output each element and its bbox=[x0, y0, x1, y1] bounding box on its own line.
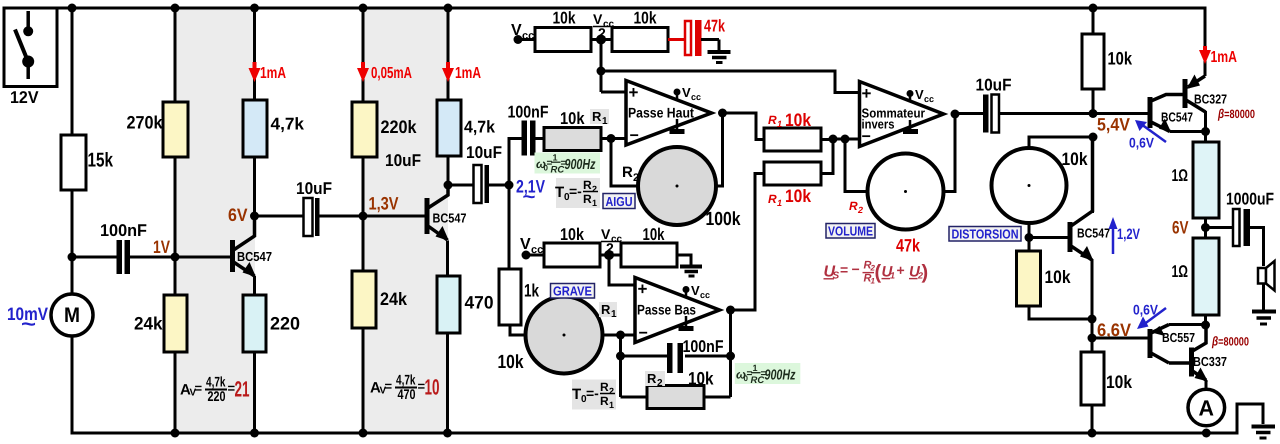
formula Av stage1 bbox=[180, 374, 250, 405]
svg-text:β=80000: β=80000 bbox=[1211, 334, 1249, 349]
capacitor 100nF input bbox=[72, 221, 175, 274]
svg-text:1: 1 bbox=[753, 363, 758, 373]
svg-text:V: V bbox=[682, 85, 691, 100]
svg-text:~: ~ bbox=[523, 187, 536, 208]
svg-text:1mA: 1mA bbox=[260, 65, 286, 82]
svg-text:R: R bbox=[592, 109, 602, 124]
node sommateur output bbox=[951, 110, 960, 119]
transistor Q1 BC547 bbox=[175, 216, 272, 295]
svg-text:1: 1 bbox=[602, 116, 608, 127]
svg-text:10k: 10k bbox=[560, 225, 584, 244]
svg-text:=: = bbox=[195, 381, 203, 396]
svg-text:+: + bbox=[638, 280, 648, 299]
svg-text:=: = bbox=[840, 262, 848, 278]
svg-text:+: + bbox=[629, 83, 639, 102]
resistor 10k bias2b bbox=[621, 243, 677, 267]
resistor 220k bbox=[352, 102, 377, 157]
resistor R1b 10k summing bbox=[764, 162, 821, 185]
svg-text:cc: cc bbox=[924, 94, 934, 104]
node output top bbox=[1201, 127, 1210, 136]
arrow 0,6V top blue bbox=[1129, 120, 1166, 151]
svg-text:S: S bbox=[833, 271, 840, 282]
svg-text:1: 1 bbox=[609, 400, 614, 410]
svg-text:1: 1 bbox=[611, 309, 617, 320]
node 6V output bbox=[1201, 223, 1210, 232]
svg-text:100nF: 100nF bbox=[508, 103, 549, 122]
svg-text:270k: 270k bbox=[127, 113, 164, 133]
node collector stage1 bbox=[250, 212, 259, 221]
resistor 10k top right bbox=[1082, 4, 1133, 114]
op-amp U1 Passe Haut bbox=[626, 81, 712, 146]
node Vcc/2 row1 bbox=[591, 11, 615, 45]
svg-text:6V: 6V bbox=[1172, 218, 1189, 238]
svg-text:1: 1 bbox=[777, 198, 782, 208]
shaded band stage2 bbox=[363, 7, 448, 433]
svg-text:GRAVE: GRAVE bbox=[553, 284, 592, 299]
svg-text:1Ω: 1Ω bbox=[1172, 166, 1189, 185]
resistor 470 emitter stage2 bbox=[437, 276, 460, 333]
transistor Q6 BC557 bbox=[1092, 325, 1206, 364]
wire 2,1V node up to 100nF bbox=[509, 139, 522, 186]
Vcc terminal row1 bbox=[511, 22, 535, 44]
svg-text:10k: 10k bbox=[1062, 149, 1089, 169]
wire pot to PB minus bbox=[603, 334, 636, 337]
resistor 220 emitter stage1 bbox=[243, 295, 266, 352]
arrow 0,6V bottom blue bbox=[1133, 302, 1166, 330]
wire 5,4V node down bbox=[1091, 137, 1094, 213]
node mic/cap junction bbox=[68, 253, 77, 262]
current arrow 1mA stage2 bbox=[442, 62, 481, 82]
svg-text:10k: 10k bbox=[553, 9, 576, 28]
svg-text:10uF: 10uF bbox=[385, 151, 421, 170]
label R1 PB bbox=[599, 302, 617, 320]
svg-text:invers: invers bbox=[862, 117, 895, 132]
wire Vcc/2 row2 to PB+ bbox=[609, 255, 635, 285]
svg-text:1: 1 bbox=[592, 198, 597, 208]
resistor 1ohm top bbox=[1172, 132, 1220, 239]
wire 4,7k/470 column stage2 bbox=[446, 8, 450, 433]
node 6,6V bbox=[1088, 315, 1097, 324]
svg-text:BC547: BC547 bbox=[237, 249, 272, 264]
op-amp U2 Passe Bas bbox=[635, 278, 720, 343]
svg-text:1000uF: 1000uF bbox=[1226, 190, 1274, 209]
arrow 1,2V blue bbox=[1109, 217, 1141, 254]
wire PH out to R1a bbox=[723, 113, 765, 140]
formula T0 PB bbox=[572, 380, 616, 411]
svg-text:100k: 100k bbox=[706, 209, 741, 230]
svg-text:2: 2 bbox=[592, 184, 597, 194]
resistor R2 10k PB grey bbox=[621, 369, 731, 409]
capacitor 10uF coupling stage2-filters bbox=[448, 143, 509, 203]
svg-text:R: R bbox=[600, 394, 609, 408]
wire Vcc/2 to PH+ and Sommateur+ bbox=[601, 40, 859, 93]
wire 1k to GRAVE pot bbox=[510, 325, 526, 335]
svg-text:10: 10 bbox=[425, 375, 440, 400]
speaker bbox=[1258, 261, 1275, 311]
svg-text:10k: 10k bbox=[498, 352, 524, 373]
svg-text:24k: 24k bbox=[134, 314, 163, 334]
svg-text:900Hz: 900Hz bbox=[765, 368, 797, 384]
label AIGU bbox=[603, 194, 635, 210]
wire top supply bus bbox=[57, 8, 1205, 76]
potentiometer GRAVE 10k bbox=[526, 297, 603, 374]
svg-text:BC547: BC547 bbox=[433, 211, 467, 226]
svg-text:5,4V: 5,4V bbox=[1097, 115, 1130, 135]
shaded band stage1 bbox=[175, 7, 255, 433]
wire to VOLUME pot left bbox=[845, 139, 868, 192]
current arrow 1mA stage1 bbox=[249, 62, 287, 82]
svg-text:2: 2 bbox=[657, 378, 663, 389]
wire 4,7k/220 column bbox=[253, 8, 256, 433]
svg-text:10uF: 10uF bbox=[976, 76, 1012, 95]
formula w0 PB green bbox=[735, 363, 801, 386]
svg-text:10k: 10k bbox=[1108, 49, 1133, 69]
microphone M bbox=[51, 294, 93, 336]
svg-text:A: A bbox=[1199, 396, 1215, 421]
svg-text:R: R bbox=[583, 192, 592, 206]
svg-text:4,7k: 4,7k bbox=[464, 118, 496, 137]
svg-text:Passe Haut: Passe Haut bbox=[628, 105, 694, 121]
wire 270k/24k column bbox=[174, 8, 177, 433]
resistor 15k bbox=[61, 135, 86, 190]
svg-text:47k: 47k bbox=[704, 17, 725, 36]
svg-text:R: R bbox=[849, 199, 858, 213]
svg-text:DISTORSION: DISTORSION bbox=[952, 227, 1019, 242]
svg-text:15k: 15k bbox=[88, 150, 114, 172]
current arrow 0,05mA bbox=[357, 62, 412, 82]
resistor 24k stage1 bbox=[164, 295, 187, 352]
svg-text:10k: 10k bbox=[785, 186, 812, 206]
node collector stage2 bbox=[444, 181, 453, 190]
svg-text:1: 1 bbox=[553, 153, 558, 163]
svg-text:V: V bbox=[915, 87, 924, 102]
svg-text:1,2V: 1,2V bbox=[1117, 226, 1140, 243]
svg-text:2: 2 bbox=[609, 386, 614, 396]
svg-text:+: + bbox=[897, 262, 905, 278]
svg-text:cc: cc bbox=[700, 290, 710, 300]
svg-text:900Hz: 900Hz bbox=[565, 157, 597, 173]
svg-text:0,6V: 0,6V bbox=[1129, 135, 1155, 151]
node base stage1 bbox=[171, 253, 180, 262]
svg-text:+: + bbox=[862, 84, 872, 103]
wire 2,1V down to 1k bbox=[508, 185, 511, 269]
ground bottom right bbox=[1252, 427, 1276, 439]
resistor 24k stage2 bbox=[352, 271, 376, 328]
svg-text:1V: 1V bbox=[153, 237, 170, 257]
potentiometer VOLUME 47k bbox=[868, 154, 944, 230]
node Vcc/2 row2 bbox=[600, 226, 623, 260]
svg-text:−: − bbox=[852, 261, 860, 277]
ground row2 bbox=[680, 267, 702, 277]
svg-text:=-: =- bbox=[569, 183, 582, 199]
label GRAVE bbox=[551, 284, 595, 299]
svg-text:R: R bbox=[768, 192, 777, 206]
wire PH feedback to pot bbox=[611, 113, 723, 186]
formula T0 PH bbox=[555, 178, 600, 208]
resistor 4,7k stage1 bbox=[243, 100, 267, 157]
wire PB out to R1b bbox=[731, 174, 765, 311]
svg-text:1: 1 bbox=[890, 271, 895, 281]
svg-text:10k: 10k bbox=[688, 369, 714, 389]
resistor 270k bbox=[163, 102, 188, 157]
svg-text:(: ( bbox=[875, 262, 882, 284]
transistor Q4 BC547 sziklai top bbox=[1093, 95, 1206, 133]
wire 220k/24k column stage2 bbox=[362, 8, 365, 433]
svg-text:cc: cc bbox=[691, 92, 701, 102]
capacitor 100nF PH input bbox=[508, 103, 549, 156]
node 5,4V bbox=[1089, 109, 1098, 118]
svg-text:47k: 47k bbox=[896, 236, 921, 256]
svg-text:1mA: 1mA bbox=[1211, 49, 1238, 66]
resistor 10k bias1a bbox=[535, 28, 591, 52]
svg-text:BC327: BC327 bbox=[1194, 92, 1227, 107]
Vcc terminal row2 bbox=[520, 236, 544, 260]
svg-text:10k: 10k bbox=[643, 225, 665, 244]
resistor 10k bias2a bbox=[544, 243, 600, 267]
node top-left junction bbox=[68, 4, 77, 13]
capacitor 47k red bbox=[668, 17, 725, 57]
potentiometer DISTORSION 10k bbox=[992, 148, 1067, 223]
ammeter A bbox=[1188, 389, 1225, 426]
svg-text:12V: 12V bbox=[10, 88, 39, 107]
wire 15k to mic node bbox=[71, 190, 74, 257]
svg-text:21: 21 bbox=[235, 377, 250, 402]
wire distorsion pot top bbox=[1029, 137, 1093, 148]
capacitor 1000uF bbox=[1206, 190, 1275, 267]
node 2,1V bbox=[505, 181, 514, 190]
svg-text:=: = bbox=[385, 379, 393, 394]
svg-text:R: R bbox=[600, 380, 609, 394]
svg-text:220k: 220k bbox=[381, 117, 418, 137]
svg-text:470: 470 bbox=[465, 293, 494, 313]
formula Us red bbox=[824, 260, 929, 286]
wire bottom ground bus bbox=[72, 257, 1263, 433]
svg-text:0,05mA: 0,05mA bbox=[371, 65, 412, 82]
svg-text:10uF: 10uF bbox=[296, 179, 332, 198]
svg-text:2: 2 bbox=[633, 172, 639, 184]
transistor Q7 BC337 bbox=[1192, 325, 1228, 390]
potentiometer AIGU 100k bbox=[638, 147, 716, 225]
svg-text:−: − bbox=[639, 325, 648, 342]
label DISTORSION bbox=[949, 227, 1021, 242]
wire distorsion pot bottom bbox=[1028, 223, 1031, 251]
current arrow 1mA output bbox=[1199, 46, 1237, 66]
resistor R1 10k PH grey bbox=[544, 109, 611, 151]
svg-text:M: M bbox=[64, 304, 80, 327]
wire summing node bbox=[821, 139, 859, 174]
resistor 1k bbox=[499, 269, 521, 325]
wire to ground row2 bbox=[677, 255, 691, 265]
label R2 volume bbox=[849, 199, 863, 215]
svg-text:100nF: 100nF bbox=[683, 337, 724, 356]
svg-text:R: R bbox=[768, 113, 777, 127]
svg-text:~: ~ bbox=[21, 313, 36, 336]
svg-text:10k: 10k bbox=[634, 9, 657, 28]
svg-text:R: R bbox=[622, 164, 633, 181]
svg-text:BC547: BC547 bbox=[1077, 226, 1110, 241]
svg-text:10uF: 10uF bbox=[466, 143, 502, 162]
svg-text:V: V bbox=[520, 236, 531, 253]
svg-text:10k: 10k bbox=[1106, 372, 1133, 392]
node PH output bbox=[718, 109, 727, 118]
wire PB feedback loop bbox=[621, 310, 731, 397]
svg-text:10k: 10k bbox=[560, 109, 585, 128]
svg-text:1mA: 1mA bbox=[455, 65, 481, 82]
svg-text:AIGU: AIGU bbox=[606, 194, 633, 209]
svg-text:R: R bbox=[647, 371, 657, 386]
capacitor 10uF coupling stage1-2 bbox=[255, 179, 364, 236]
svg-text:β=80000: β=80000 bbox=[1217, 106, 1255, 121]
svg-text:6V: 6V bbox=[228, 205, 248, 225]
svg-text:1k: 1k bbox=[524, 281, 540, 301]
resistor 4,7k stage2 bbox=[437, 100, 461, 156]
capacitor 100nF PB bbox=[667, 337, 724, 373]
wire 10k distorsion to emitter node bbox=[1029, 306, 1092, 319]
resistor 10k bottom right bbox=[1081, 338, 1133, 438]
formula w0 PH green bbox=[535, 153, 601, 176]
svg-text:V: V bbox=[691, 283, 700, 298]
svg-text:10k: 10k bbox=[1045, 267, 1072, 287]
op-amp U3 Sommateur inverseur bbox=[860, 82, 944, 147]
resistor R1a 10k summing bbox=[764, 128, 821, 151]
svg-text:10k: 10k bbox=[785, 110, 812, 130]
node PB output bbox=[726, 306, 735, 315]
svg-text:R: R bbox=[583, 178, 592, 192]
svg-text:4,7k: 4,7k bbox=[271, 115, 305, 134]
svg-text:R: R bbox=[601, 302, 611, 317]
svg-text:BC337: BC337 bbox=[1193, 354, 1227, 369]
svg-text:BC547: BC547 bbox=[1161, 110, 1193, 125]
wire 15k column bbox=[71, 8, 74, 135]
svg-text:2: 2 bbox=[857, 205, 863, 215]
resistor 10k distorsion yellow bbox=[1017, 251, 1041, 306]
svg-text:24k: 24k bbox=[380, 289, 408, 309]
battery 12V box bbox=[4, 8, 57, 87]
svg-text:1Ω: 1Ω bbox=[1172, 262, 1189, 281]
svg-text:VOLUME: VOLUME bbox=[828, 224, 873, 239]
formula Av stage2 bbox=[370, 372, 440, 403]
ground row1 bbox=[708, 52, 731, 63]
capacitor 10uF output bbox=[955, 76, 1093, 133]
resistor 1ohm bottom bbox=[1172, 238, 1220, 325]
svg-text:T: T bbox=[555, 184, 564, 201]
svg-text:1: 1 bbox=[777, 119, 782, 129]
ground speaker bbox=[1252, 312, 1276, 325]
node PH minus bbox=[607, 134, 616, 143]
svg-text:220: 220 bbox=[270, 314, 300, 334]
svg-text:BC557: BC557 bbox=[1162, 330, 1195, 345]
svg-text:=-: =- bbox=[586, 385, 599, 401]
svg-text:): ) bbox=[922, 262, 929, 284]
svg-text:100nF: 100nF bbox=[100, 221, 147, 240]
svg-text:−: − bbox=[630, 128, 639, 145]
svg-text:1,3V: 1,3V bbox=[369, 194, 399, 214]
transistor Q5 BC327 bbox=[1185, 75, 1227, 132]
label VOLUME bbox=[826, 224, 875, 239]
wire sommateur feedback bbox=[944, 114, 956, 192]
svg-text:Passe Bas: Passe Bas bbox=[637, 302, 696, 318]
transistor Q3 BC547 distorsion bbox=[1029, 137, 1110, 319]
resistor 10k bias1b bbox=[612, 28, 668, 52]
transistor Q2 BC547 bbox=[363, 187, 467, 241]
svg-text:T: T bbox=[572, 386, 581, 403]
node speaker return bbox=[1201, 321, 1210, 330]
